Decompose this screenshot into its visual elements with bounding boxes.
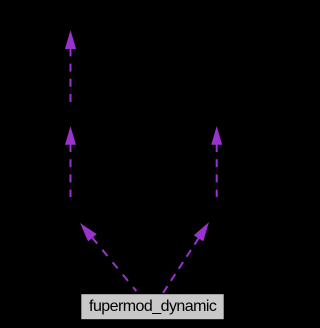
edge E1 arrowhead (66, 32, 76, 49)
node label: fupermod_dynamic (81, 294, 224, 320)
node fupermod_dynamic (current node box) (81, 294, 224, 320)
edge E2 arrowhead (66, 128, 76, 144)
edge E5 shaft (dashed diagonal, node fupermod_dynamic -> invisible node D) (163, 238, 199, 293)
edge E3 arrowhead (212, 128, 222, 144)
edge E1 shaft (dashed, invisible node B -> invisible node A) (70, 48, 72, 102)
edge E4 arrowhead (81, 224, 96, 240)
edge E4 shaft (dashed diagonal, node fupermod_dynamic -> invisible node C) (92, 237, 136, 291)
edge E2 shaft (dashed, invisible node C -> invisible node B) (70, 144, 72, 197)
edge E3 shaft (dashed, invisible node D -> invisible node E) (216, 144, 218, 197)
edge E5 arrowhead (195, 224, 208, 241)
